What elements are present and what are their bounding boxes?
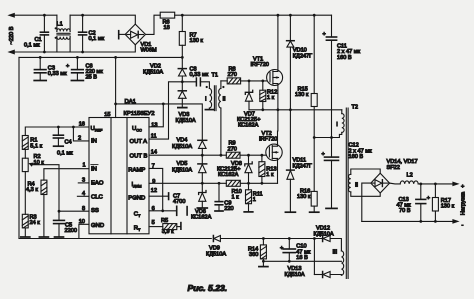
svg-text:0,1 мк: 0,1 мк <box>57 150 73 156</box>
inductor L2 <box>400 181 418 184</box>
capacitor C2 <box>82 15 84 32</box>
wire: VCC riser to pin15 <box>115 57 117 117</box>
svg-text:0,1 мк: 0,1 мк <box>89 36 105 42</box>
svg-text:L2: L2 <box>407 172 413 178</box>
resistor R5 3.9k <box>149 226 163 228</box>
svg-text:GND: GND <box>91 223 104 229</box>
resistor R15 130k <box>313 15 315 93</box>
svg-text:OUT A: OUT A <box>130 139 148 145</box>
svg-text:1: 1 <box>83 163 86 169</box>
wire: bridge plus up to R6 <box>146 15 161 34</box>
svg-text:9: 9 <box>152 179 155 185</box>
resistor R17 130k <box>434 183 437 186</box>
wire: winding III center tap line <box>263 260 341 262</box>
svg-text:130 к: 130 к <box>441 204 455 210</box>
svg-text:КД510А: КД510А <box>143 70 163 76</box>
diode VD12 KD510A <box>313 237 316 240</box>
resistor R6 18 <box>160 12 175 18</box>
svg-text:220: 220 <box>224 206 233 212</box>
wire: pin1 line <box>44 169 89 180</box>
svg-text:0,1 мк: 0,1 мк <box>24 43 40 49</box>
svg-text:VD5: VD5 <box>177 161 188 167</box>
svg-text:15: 15 <box>104 112 110 118</box>
svg-text:II: II <box>223 97 227 103</box>
transformer T2 winding I <box>342 114 344 133</box>
resistor R10 1k <box>226 180 240 186</box>
wire: pin10 GND riser <box>79 224 89 238</box>
capacitor C4 0.1mk <box>57 127 59 135</box>
svg-text:IN: IN <box>91 166 97 172</box>
diode VD9 KD510A <box>212 236 214 242</box>
svg-text:W06M: W06M <box>141 48 158 54</box>
wire: VT1 source to midline <box>277 85 279 109</box>
wire: midpoint line <box>249 109 342 111</box>
svg-text:4700: 4700 <box>173 199 185 205</box>
capacitor C13 47mk 70V <box>419 183 422 186</box>
svg-text:16 В: 16 В <box>296 255 308 261</box>
svg-text:5: 5 <box>152 220 155 226</box>
capacitor C6 220mk 25V <box>76 57 78 69</box>
wire: pin3 EAO stub <box>78 182 89 184</box>
resistor R12 1k <box>261 80 264 83</box>
svg-text:КД510А: КД510А <box>285 272 305 278</box>
input arrow bottom <box>7 50 14 55</box>
svg-text:КС162А: КС162А <box>191 215 212 221</box>
svg-text:13: 13 <box>151 122 157 128</box>
wire: VT1 drain to +rail <box>277 15 279 69</box>
svg-text:T2: T2 <box>352 105 359 111</box>
wire: pin14 OUT B line <box>149 154 226 156</box>
svg-text:360: 360 <box>249 252 258 258</box>
svg-text:КР1156ЕУ2: КР1156ЕУ2 <box>124 111 155 117</box>
svg-text:RAMP: RAMP <box>128 167 145 173</box>
zener VD6 KS162A <box>201 183 203 192</box>
diode VD13 KD510A <box>314 274 322 276</box>
wire: bridge plus to L2 <box>390 182 401 185</box>
svg-text:IRF720: IRF720 <box>251 62 269 68</box>
svg-text:18: 18 <box>164 25 170 31</box>
wire: left trunk VCC down <box>18 57 20 238</box>
capacitor C11 2x47mk 160V <box>331 15 333 37</box>
diode VD5 KD510A <box>198 163 207 165</box>
wire: capacitor divider node line <box>314 132 342 137</box>
svg-text:L1: L1 <box>57 21 63 27</box>
svg-text:КД510А: КД510А <box>172 144 192 150</box>
wire: AC top rail <box>14 14 57 16</box>
svg-text:1: 1 <box>253 197 256 203</box>
wire: VT2 drain to midline <box>277 110 279 144</box>
svg-text:1 к: 1 к <box>267 95 275 101</box>
wire: pin13 riser <box>149 104 163 127</box>
svg-text:+: + <box>322 151 325 157</box>
wire: pin16 Uref line <box>25 127 89 136</box>
wire: pin9 Ilim line <box>149 182 226 184</box>
svg-text:КС162А: КС162А <box>238 123 259 129</box>
svg-text:Нагрузка: Нагрузка <box>460 191 466 215</box>
wire: top rail L1 to bridge <box>70 15 135 24</box>
svg-text:SF22: SF22 <box>387 165 400 171</box>
bridge rectifier VD1 W06M <box>125 24 145 45</box>
svg-text:+: + <box>461 184 464 190</box>
wire: pin12 PGND stub <box>149 195 168 197</box>
transformer T2 winding III <box>341 251 343 275</box>
svg-text:270: 270 <box>228 146 237 152</box>
svg-text:R5: R5 <box>161 218 168 224</box>
diode VD10 KD247G <box>289 15 291 41</box>
svg-text:КД247Г: КД247Г <box>293 53 312 59</box>
zener VD8 KS212B+KS162A <box>247 154 250 157</box>
svg-text:+: + <box>280 245 283 251</box>
svg-text:Рис. 5.23.: Рис. 5.23. <box>188 283 228 293</box>
wire: VT2 source down <box>277 160 279 183</box>
svg-text:DA1: DA1 <box>125 99 136 105</box>
resistor R13 1k <box>261 154 264 157</box>
wire: pin7 RAMP riser to CT <box>149 168 163 210</box>
chip DA1 KR1156EU2 body <box>89 118 149 234</box>
bridge rectifier VD14-VD17 SF22 <box>371 173 390 193</box>
wire: R2 wiper arrow to SS column <box>28 163 33 167</box>
output arrow bottom <box>452 219 459 224</box>
svg-text:0,33 мк: 0,33 мк <box>48 71 67 77</box>
svg-text:PGND: PGND <box>128 195 145 201</box>
svg-text:0,33 мк: 0,33 мк <box>190 72 209 78</box>
svg-text:1 к: 1 к <box>232 195 240 201</box>
resistor R8 270 <box>221 80 227 82</box>
svg-text:70 В: 70 В <box>399 208 411 214</box>
capacitor C10 47mk 16V <box>288 237 291 240</box>
capacitor C9 220 <box>218 183 220 201</box>
capacitor C5 2200 <box>58 211 60 220</box>
svg-text:II: II <box>355 183 359 189</box>
svg-text:VD4: VD4 <box>177 138 188 144</box>
capacitor C12 2x47mk 160V <box>331 138 333 158</box>
resistor R2 10k (trimmer) <box>24 149 26 158</box>
svg-text:11: 11 <box>151 133 157 139</box>
resistor R14 360 <box>262 237 265 240</box>
inductor L1 (common-mode choke) <box>56 15 58 31</box>
capacitor C7 4700 <box>149 210 177 212</box>
resistor R7 130k <box>181 15 183 31</box>
output arrow top <box>452 182 459 187</box>
resistor R11 1 <box>248 183 250 190</box>
svg-text:12: 12 <box>151 188 157 194</box>
svg-text:24 к: 24 к <box>30 220 41 226</box>
svg-text:SS: SS <box>91 208 99 214</box>
svg-text:1 к: 1 к <box>266 172 274 178</box>
wire: pin11 OUT A riser to drive node <box>149 82 196 139</box>
svg-text:3,9 к: 3,9 к <box>162 229 174 235</box>
resistor R9 270 <box>226 152 240 158</box>
svg-text:+: + <box>427 195 430 201</box>
svg-text:130 к: 130 к <box>295 92 309 98</box>
diode VD3 KD510A <box>181 82 183 91</box>
wire: AC bottom rail <box>14 45 135 52</box>
svg-text:КД247Г: КД247Г <box>293 164 312 170</box>
svg-text:КД510А: КД510А <box>176 118 196 124</box>
svg-text:+: + <box>323 31 326 37</box>
wire: output top rail <box>418 183 453 185</box>
wire: VCC feed wire across to VD4 <box>116 104 203 140</box>
svg-text:КС162А: КС162А <box>218 172 239 178</box>
wire: pin2 riser <box>73 127 89 141</box>
wire: output bottom rail <box>362 220 453 222</box>
svg-text:130 к: 130 к <box>297 194 311 200</box>
svg-text:IRF720: IRF720 <box>259 136 277 142</box>
capacitor C8 0.33mk <box>195 78 197 86</box>
input arrow top (~220V phase) <box>7 13 14 18</box>
zener VD7 KS212B+KS162A <box>248 80 251 83</box>
transformer T1 winding I <box>200 82 209 89</box>
diode VD2 KD510A <box>181 57 183 68</box>
transformer T2 winding II <box>351 169 380 174</box>
wire: aux anode riser <box>313 239 315 275</box>
wire: +rail from R6 to C11 corner <box>175 14 332 16</box>
capacitor C1 <box>43 15 45 32</box>
svg-text:160 В: 160 В <box>349 154 364 160</box>
svg-text:OUT B: OUT B <box>130 153 148 159</box>
wire: pin4 CLC stub <box>77 195 89 197</box>
wire: VCC storage rail <box>19 56 182 58</box>
svg-text:2200: 2200 <box>65 228 77 234</box>
svg-text:КД510А: КД510А <box>206 251 226 257</box>
svg-text:III: III <box>333 249 338 255</box>
resistor R4 4.3k <box>41 180 47 194</box>
transistor VT2 IRF720 <box>266 144 282 160</box>
svg-text:-: - <box>462 223 464 229</box>
wire: bridge minus to output return <box>362 183 371 221</box>
resistor R16 130k <box>313 138 315 192</box>
svg-text:4,3 к: 4,3 к <box>26 187 38 193</box>
transformer T1 winding II <box>220 81 222 89</box>
wire: bridge minus stub with bar <box>119 33 125 35</box>
resistor R3 24k <box>22 214 28 228</box>
diode VD11 KD247G <box>289 110 291 170</box>
svg-text:~220 В: ~220 В <box>9 26 15 44</box>
svg-text:25 В: 25 В <box>86 75 98 81</box>
svg-text:КД510А: КД510А <box>314 231 334 237</box>
wire: aux VCC line along bottom <box>19 238 211 240</box>
capacitor C3 0.33mk <box>39 57 41 69</box>
wire: midline corner down to T2 primary <box>341 110 343 114</box>
transformer T1 core <box>213 86 215 111</box>
svg-text:C4: C4 <box>65 140 72 146</box>
diode VD4 KD510A <box>198 139 207 141</box>
wire: pin8 SS line <box>59 210 89 212</box>
svg-text:T1: T1 <box>212 73 219 79</box>
transistor VT1 IRF720 <box>267 70 283 86</box>
svg-text:IN: IN <box>91 138 97 144</box>
svg-text:КД510А: КД510А <box>172 167 192 173</box>
svg-text:270: 270 <box>228 72 237 78</box>
svg-text:CLC: CLC <box>91 195 104 201</box>
resistor R1 5.1k <box>22 136 28 150</box>
svg-text:5,1 к: 5,1 к <box>30 143 42 149</box>
transformer T2 core <box>345 108 347 279</box>
svg-text:130 к: 130 к <box>190 38 204 44</box>
svg-text:+: + <box>66 64 69 70</box>
svg-text:160 В: 160 В <box>337 55 352 61</box>
svg-text:EAO: EAO <box>91 181 104 187</box>
